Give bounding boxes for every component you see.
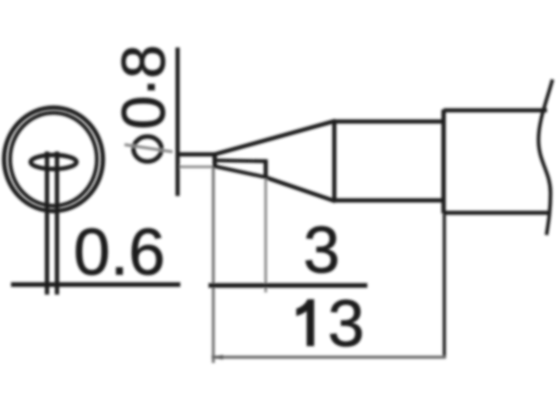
flat face top line bbox=[216, 158, 266, 163]
body top bbox=[444, 108, 547, 112]
0.6 dimension line bbox=[11, 282, 180, 287]
extension line right (3) bbox=[264, 179, 267, 293]
cone top silhouette bbox=[215, 121, 336, 155]
flat face bottom line bbox=[214, 166, 266, 177]
extension line right (13) bbox=[443, 214, 446, 359]
label phi (drawn: loop + slash), rotated form bbox=[134, 137, 162, 162]
blade edge line right bbox=[55, 152, 59, 295]
svg-text:0.8: 0.8 bbox=[100, 45, 178, 130]
svg-text:0.6: 0.6 bbox=[74, 214, 166, 288]
blade edge line left bbox=[45, 152, 49, 295]
sleeve top bbox=[334, 119, 443, 123]
blade top ellipse bbox=[31, 155, 77, 169]
phi0.8 dimension line vertical bbox=[176, 48, 180, 197]
cone bottom silhouette bbox=[266, 177, 336, 201]
extension line left (3/13) bbox=[212, 168, 215, 363]
front view inner circle bbox=[10, 113, 97, 206]
sleeve bottom bbox=[334, 198, 443, 202]
svg-text:3: 3 bbox=[303, 213, 340, 287]
tip edge bbox=[212, 153, 216, 168]
body step vertical bbox=[441, 110, 445, 214]
label 13 bbox=[297, 300, 314, 346]
break line bbox=[539, 80, 553, 236]
front view outer circle bbox=[4, 108, 103, 211]
3 dimension line bbox=[209, 283, 368, 288]
svg-text:3: 3 bbox=[328, 286, 365, 360]
body bottom bbox=[444, 211, 551, 215]
cone end vertical bbox=[332, 121, 336, 202]
13 dim line left arrowhead bbox=[212, 355, 224, 360]
phi0.8 extension bottom bbox=[180, 166, 215, 169]
flat face end vertical bbox=[264, 159, 268, 178]
phi0.8 extension top bbox=[176, 152, 217, 156]
13 dimension line bbox=[212, 356, 446, 359]
